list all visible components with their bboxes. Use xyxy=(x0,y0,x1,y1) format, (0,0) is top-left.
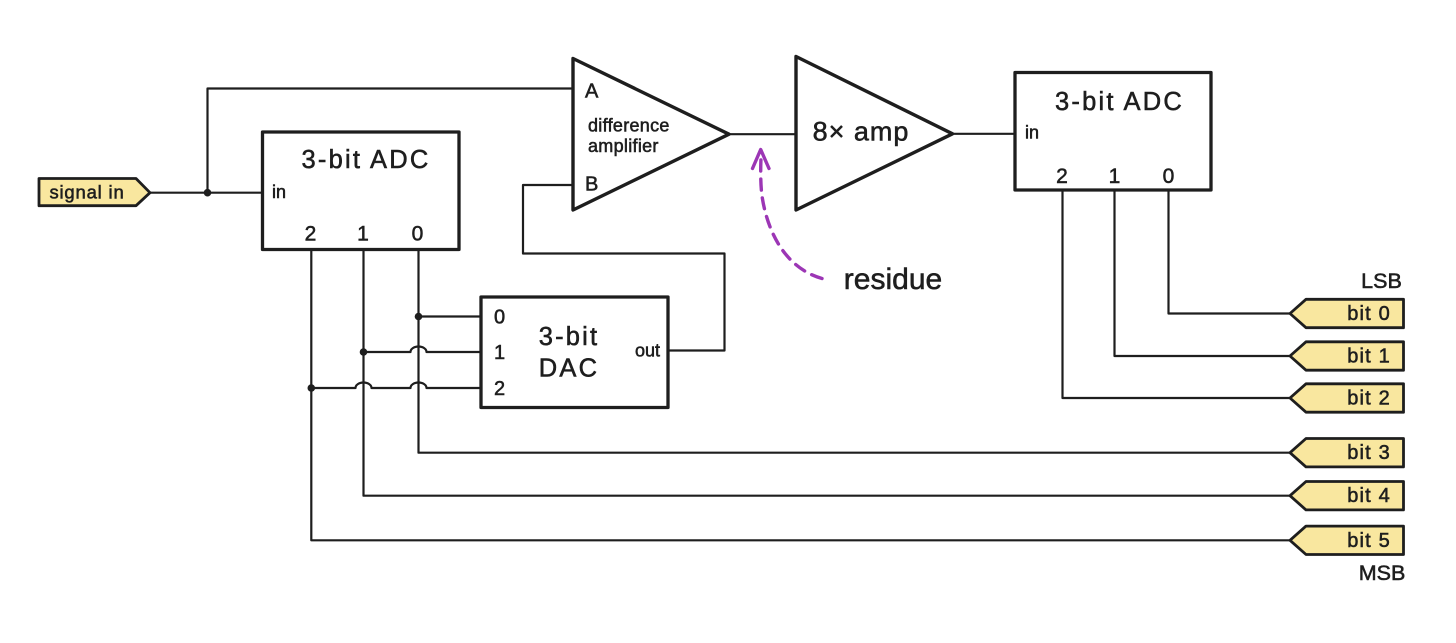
svg-text:B: B xyxy=(585,174,598,196)
svg-text:bit 1: bit 1 xyxy=(1347,346,1391,368)
svg-text:2: 2 xyxy=(305,223,317,246)
svg-text:in: in xyxy=(1025,123,1039,143)
svg-text:residue: residue xyxy=(844,263,942,296)
svg-text:bit 4: bit 4 xyxy=(1347,485,1391,507)
svg-text:0: 0 xyxy=(494,307,505,329)
svg-text:3-bit ADC: 3-bit ADC xyxy=(1055,88,1184,116)
svg-text:bit 2: bit 2 xyxy=(1347,388,1391,410)
svg-text:3-bit: 3-bit xyxy=(539,323,600,351)
svg-text:LSB: LSB xyxy=(1361,269,1402,293)
svg-text:MSB: MSB xyxy=(1359,561,1406,585)
svg-text:signal in: signal in xyxy=(49,182,124,203)
svg-text:8× amp: 8× amp xyxy=(813,117,910,147)
svg-text:bit 5: bit 5 xyxy=(1347,530,1391,552)
svg-text:DAC: DAC xyxy=(539,355,599,383)
svg-text:1: 1 xyxy=(494,342,505,364)
svg-text:0: 0 xyxy=(1163,165,1175,188)
svg-text:3-bit ADC: 3-bit ADC xyxy=(302,146,431,174)
svg-text:A: A xyxy=(585,81,599,103)
svg-text:2: 2 xyxy=(494,378,505,400)
svg-text:in: in xyxy=(272,182,286,202)
svg-text:bit 0: bit 0 xyxy=(1347,303,1391,325)
svg-text:1: 1 xyxy=(357,223,369,246)
svg-text:out: out xyxy=(635,341,660,361)
svg-text:0: 0 xyxy=(412,223,424,246)
svg-text:1: 1 xyxy=(1109,165,1121,188)
svg-text:difference: difference xyxy=(588,116,670,136)
svg-text:2: 2 xyxy=(1056,165,1068,188)
svg-text:amplifier: amplifier xyxy=(588,136,659,156)
svg-text:bit 3: bit 3 xyxy=(1347,442,1391,464)
